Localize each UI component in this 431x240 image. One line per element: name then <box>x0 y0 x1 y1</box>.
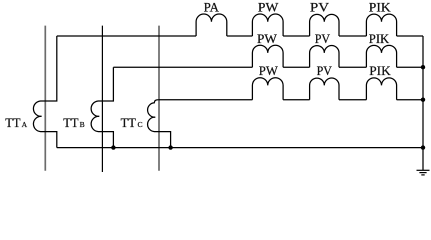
svg-text:PIK: PIK <box>369 32 390 46</box>
coil PA <box>196 14 227 36</box>
junction row2-right <box>421 65 425 69</box>
svg-text:PA: PA <box>204 1 220 15</box>
svg-text:PV: PV <box>310 1 329 15</box>
coil PW row1 <box>252 14 283 36</box>
wire row2 PW to PV <box>283 66 310 68</box>
bus phase B <box>101 26 103 172</box>
wire row2 from TTB tap to PW <box>113 66 252 68</box>
svg-text:PW: PW <box>259 64 279 78</box>
svg-text:A: A <box>22 120 28 129</box>
svg-text:B: B <box>80 120 85 129</box>
wire right vertical to ground <box>422 36 424 170</box>
wire row3 PIK to right bus <box>397 99 423 101</box>
transformer TTC winding <box>148 100 171 148</box>
svg-text:TT: TT <box>5 116 21 130</box>
wire row1 PIK to right bus <box>397 35 423 37</box>
junction neutral-right <box>421 145 425 149</box>
wire neutral bottom <box>57 147 423 149</box>
svg-text:TT: TT <box>63 116 79 130</box>
coil PV row3 <box>310 78 339 100</box>
transformer TTA winding <box>33 36 56 148</box>
transformer TTB winding <box>91 67 113 147</box>
wire row3 from TTC to PW <box>158 99 252 101</box>
junction TTC-neutral <box>168 145 172 149</box>
bus phase A <box>44 26 46 171</box>
svg-text:TT: TT <box>121 116 137 130</box>
wire row1 PV to PIK <box>339 35 366 37</box>
coil PIK row3 <box>366 78 396 100</box>
coil PW row2 <box>252 45 283 67</box>
coil PV row2 <box>310 46 339 68</box>
coil PW row3 <box>252 78 283 100</box>
svg-text:C: C <box>138 120 143 129</box>
coil PIK row1 <box>366 14 396 36</box>
coil PIK row2 <box>366 45 396 67</box>
svg-text:PIK: PIK <box>369 64 391 78</box>
wire row1 from TTA tap to PA <box>57 35 196 37</box>
svg-text:PV: PV <box>315 32 331 46</box>
junction row3-right <box>421 98 425 102</box>
coil PV row1 <box>310 14 339 36</box>
ground <box>417 170 430 175</box>
svg-text:PW: PW <box>258 1 279 15</box>
wire row3 PW to PV <box>283 99 310 101</box>
wire row3 PV to PIK <box>339 99 366 101</box>
junction TTB-neutral <box>111 145 115 149</box>
wire row1 PA to PW <box>227 35 253 37</box>
bus phase C <box>158 26 160 171</box>
wire row2 PV to PIK <box>339 66 366 68</box>
svg-text:PW: PW <box>257 32 277 46</box>
svg-text:PIK: PIK <box>369 1 391 15</box>
wire row2 PIK to right bus <box>397 66 423 68</box>
svg-text:PV: PV <box>317 64 332 78</box>
wire row1 PW to PV <box>283 35 310 37</box>
